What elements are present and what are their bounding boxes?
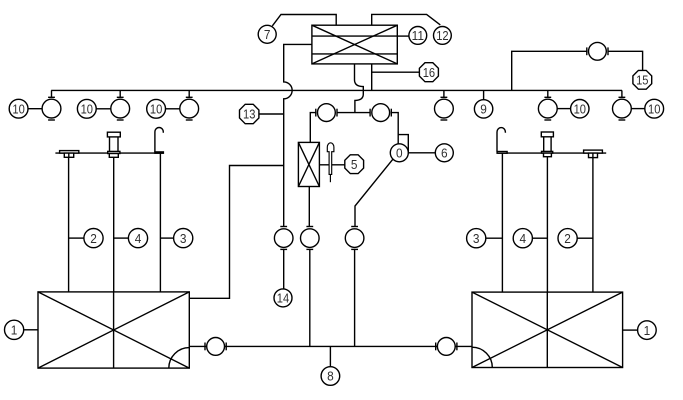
svg-text:11: 11 xyxy=(412,28,424,43)
wire tap A to balloon 10 xyxy=(28,108,42,110)
svg-text:4: 4 xyxy=(520,231,527,246)
vacuum tap C xyxy=(180,90,199,120)
svg-text:0: 0 xyxy=(396,146,403,161)
node 10d balloon xyxy=(571,100,589,118)
svg-text:7: 7 xyxy=(264,27,271,42)
wire balloon 13 to riser xyxy=(259,113,284,115)
node 10a balloon xyxy=(9,99,28,118)
regulator A xyxy=(274,227,293,250)
node 0 balloon xyxy=(390,144,408,162)
pump centre right xyxy=(370,104,391,122)
wire notch at balloon 0 xyxy=(398,135,408,153)
svg-text:10: 10 xyxy=(648,101,660,116)
node 10e balloon xyxy=(645,99,664,118)
wire between centre pumps xyxy=(337,112,370,114)
wire circle to manifold left xyxy=(309,249,311,346)
wire to balloon 12 xyxy=(372,14,441,25)
wire bottom manifold xyxy=(189,345,472,347)
wire riser to left tank elbow xyxy=(189,166,283,299)
flat-bar unit left xyxy=(60,151,79,158)
regulator B xyxy=(301,227,320,250)
wire balloon 4 right link xyxy=(532,237,547,239)
wire circle to balloon 14 xyxy=(283,249,285,289)
vacuum tap E xyxy=(538,90,557,120)
wire balloon 3 left link xyxy=(160,237,173,239)
node 3 left balloon xyxy=(174,229,193,248)
svg-text:3: 3 xyxy=(180,231,187,246)
wire stub to balloon 9 xyxy=(483,90,485,99)
wire filter riser to left pump xyxy=(310,113,316,143)
wire top-right riser and run xyxy=(512,51,587,90)
wire tap C to balloon 10 xyxy=(166,108,180,110)
svg-text:6: 6 xyxy=(441,146,448,161)
plunger unit right xyxy=(541,132,553,157)
wire tap F to balloon 10 xyxy=(631,108,645,110)
wire balloon 2 right link xyxy=(577,237,593,239)
node 16 balloon xyxy=(419,63,438,82)
svg-text:13: 13 xyxy=(243,107,255,122)
wire balloon 3 right link xyxy=(486,237,503,239)
wire main vacuum line xyxy=(51,89,622,91)
wire filter to circle xyxy=(308,187,310,227)
wire right drop pipe A xyxy=(501,153,503,292)
wire box bottom to main line xyxy=(371,64,373,91)
pump bottom left xyxy=(205,338,226,356)
pump top right xyxy=(587,42,608,60)
node 5 balloon xyxy=(345,155,364,174)
filter box xyxy=(298,142,319,186)
wire balloon 1 left link xyxy=(24,329,38,331)
node 15 balloon xyxy=(633,70,652,89)
node 8 balloon xyxy=(321,367,340,386)
wire right drop pipe C xyxy=(592,158,594,293)
node 7 balloon xyxy=(258,25,276,43)
svg-text:1: 1 xyxy=(644,323,651,338)
pump bottom right xyxy=(436,338,457,356)
svg-text:12: 12 xyxy=(436,28,448,43)
svg-text:10: 10 xyxy=(12,101,24,116)
wire left drop pipe C xyxy=(159,153,161,292)
wire diagonal balloon 0 to circle xyxy=(355,159,393,226)
vacuum tap A xyxy=(42,90,61,120)
hook unit left xyxy=(155,127,164,153)
svg-text:8: 8 xyxy=(327,369,334,384)
vacuum tap D xyxy=(435,90,454,120)
node 11 balloon xyxy=(409,27,427,45)
svg-text:10: 10 xyxy=(574,101,586,116)
svg-text:2: 2 xyxy=(90,231,97,246)
regulator C xyxy=(345,227,364,250)
thermometer xyxy=(327,143,334,182)
node 10b balloon xyxy=(77,99,96,118)
svg-text:1: 1 xyxy=(11,323,18,338)
wire tap B to balloon 10 xyxy=(96,108,111,110)
wire tap E to balloon 10 xyxy=(557,108,570,110)
wire box-left down with hop over main line xyxy=(284,44,312,226)
wire to balloon 7 xyxy=(272,15,336,26)
svg-text:14: 14 xyxy=(277,291,289,306)
node 2 left balloon xyxy=(84,229,103,248)
flat-bar unit right xyxy=(584,150,603,158)
wire to balloon 16 xyxy=(372,71,420,73)
svg-text:9: 9 xyxy=(480,102,487,117)
node 1 left balloon xyxy=(5,320,24,339)
node 9 balloon xyxy=(474,100,492,118)
svg-text:16: 16 xyxy=(423,65,435,80)
vacuum tap F xyxy=(613,90,632,120)
node 10c balloon xyxy=(147,99,166,118)
wire box bottom jump over main line xyxy=(355,64,364,113)
wire balloon 4 left link xyxy=(114,237,129,239)
tank left xyxy=(38,292,189,368)
wire left drop pipe A xyxy=(68,157,70,292)
node 12 balloon xyxy=(434,27,452,45)
node 2 right balloon xyxy=(558,229,577,248)
node 14 balloon xyxy=(274,289,292,307)
wire right pump to balloon 0 xyxy=(391,113,398,144)
node 4 left balloon xyxy=(128,229,147,248)
wire right drop pipe B xyxy=(546,157,548,292)
node 1 right balloon xyxy=(638,321,657,340)
wire balloon 2 left link xyxy=(69,237,84,239)
vacuum tap B xyxy=(111,90,130,120)
svg-text:10: 10 xyxy=(150,102,162,117)
wire balloon 0 to balloon 6 xyxy=(408,152,435,154)
receiver box xyxy=(312,25,397,64)
wire manifold to balloon 8 xyxy=(329,346,331,366)
wire pump to balloon 15 xyxy=(608,51,643,70)
svg-text:2: 2 xyxy=(564,231,571,246)
tank right xyxy=(472,292,623,367)
wire left shelf line xyxy=(55,152,163,154)
svg-text:10: 10 xyxy=(81,102,93,117)
wire circle to manifold right xyxy=(354,249,356,346)
svg-text:5: 5 xyxy=(351,157,358,172)
node 4 right balloon xyxy=(513,229,532,248)
wire right shelf line xyxy=(498,152,607,154)
svg-text:4: 4 xyxy=(135,231,142,246)
hook unit right xyxy=(497,128,507,154)
node 6 balloon xyxy=(435,144,453,162)
wire left drop pipe B xyxy=(113,157,115,292)
svg-text:3: 3 xyxy=(473,231,480,246)
pump centre left xyxy=(316,104,337,122)
wire balloon 1 right link xyxy=(623,329,638,331)
svg-text:15: 15 xyxy=(636,73,648,88)
wire to balloon 5 xyxy=(319,164,344,166)
node 3 right balloon xyxy=(467,229,486,248)
node 13 balloon xyxy=(240,104,259,123)
plunger unit left xyxy=(107,132,120,157)
wire to balloon 11 xyxy=(397,35,409,37)
